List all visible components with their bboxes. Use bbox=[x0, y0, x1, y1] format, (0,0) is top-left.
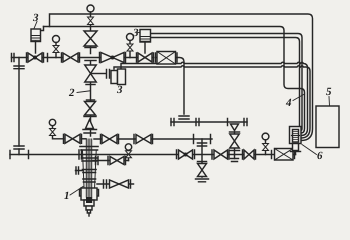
flange bar above swab valve bbox=[87, 99, 95, 101]
wire L6 signal line y=67 from box C with crossing hops bbox=[114, 66, 310, 138]
actuator box 3c (double) bbox=[111, 71, 118, 84]
gauge G2 bbox=[127, 34, 134, 41]
flange ticks left bbox=[10, 150, 82, 159]
leader 5 bbox=[328, 97, 331, 107]
lower rect bbox=[293, 144, 299, 151]
wire stem box B to valve V5 bbox=[144, 42, 146, 53]
valve bbox=[102, 135, 117, 144]
actuator box 3b bbox=[140, 30, 151, 43]
wire down from y139 line bbox=[201, 139, 203, 177]
flange bar above manifold1 bbox=[85, 47, 96, 49]
inner rect (coils) bbox=[293, 130, 299, 143]
leader 3a bbox=[34, 22, 37, 29]
valve V3 bbox=[101, 53, 124, 63]
flange bars tree top bbox=[83, 130, 97, 134]
wire stem box A to valve V1 bbox=[35, 42, 37, 54]
big valve above manifold1 bbox=[84, 31, 97, 46]
flange bars x19 upper bbox=[14, 66, 24, 69]
gauge G1 bbox=[53, 36, 60, 43]
svg-text:3: 3 bbox=[132, 27, 139, 39]
wire bbox=[171, 121, 247, 123]
leader 1 bbox=[70, 187, 83, 196]
wire bbox=[234, 132, 236, 155]
outer taper lines bbox=[83, 151, 97, 187]
svg-text:6: 6 bbox=[317, 150, 323, 162]
small valve on stem bbox=[88, 17, 94, 25]
master valve (vertical bowtie) bbox=[85, 65, 97, 82]
valve V1 bbox=[28, 53, 42, 62]
vent valve (vertical bowtie) bbox=[198, 164, 207, 177]
wire casing lines through base block bbox=[86, 188, 91, 197]
gauge G5 bbox=[262, 133, 269, 140]
left stub y=170.5 capped bbox=[76, 167, 84, 174]
flange bars bbox=[80, 147, 98, 151]
flange bar above vent valve bbox=[198, 161, 207, 163]
wire to tree bbox=[82, 138, 87, 140]
actuator box 3a bbox=[31, 29, 41, 42]
wire L4 signal line y=37.5 from box B bbox=[151, 38, 300, 127]
wire L1 top signal line y=14 bbox=[50, 14, 313, 141]
valve V8 bbox=[214, 150, 228, 159]
outer box bbox=[290, 127, 302, 144]
wire manifold 1 bbox=[12, 58, 185, 115]
flange pair left end bbox=[12, 54, 15, 62]
right stub y=184 with valve bbox=[97, 183, 134, 185]
wire stem bbox=[295, 152, 297, 155]
leader 4 bbox=[293, 94, 305, 101]
branch tee to manifold1 x=19 bbox=[18, 58, 20, 155]
wire manifold 2 bbox=[10, 154, 296, 156]
vent ground bars bbox=[196, 179, 209, 182]
gauge G3 bbox=[49, 119, 55, 125]
valve V2 bbox=[63, 53, 78, 62]
wire L2 stub into actuator box A bbox=[41, 27, 44, 31]
wire bbox=[94, 138, 212, 140]
flange pairs and ticks bbox=[171, 119, 247, 126]
flange tick bbox=[271, 151, 273, 159]
choke box with X bbox=[275, 149, 294, 161]
panel box bbox=[316, 106, 339, 148]
right stub y=160.5 with valve and gauge G4 bbox=[93, 160, 129, 162]
flange pair bbox=[107, 70, 110, 79]
funnel bbox=[231, 124, 239, 131]
svg-text:2: 2 bbox=[68, 87, 75, 99]
wire stem bbox=[90, 12, 92, 136]
valve (vertical bowtie) bbox=[230, 134, 240, 148]
flange bar bbox=[230, 131, 240, 133]
flange tick bbox=[47, 54, 49, 62]
cone adapter bbox=[86, 120, 94, 129]
svg-text:4: 4 bbox=[285, 97, 292, 109]
wire L5 signal line y=63.5 from box C with crossing hops bbox=[121, 62, 308, 135]
flange bar below swab bbox=[84, 116, 96, 118]
choke box with X bbox=[157, 52, 176, 65]
valve bbox=[136, 135, 151, 144]
valve V9 bbox=[244, 150, 254, 159]
wire side line to box C bbox=[92, 73, 106, 75]
leader 2 bbox=[77, 91, 90, 93]
svg-text:3: 3 bbox=[32, 12, 39, 24]
wire L3 signal line y=33.5 from box B bbox=[151, 34, 303, 131]
valve V5 under box B bbox=[138, 53, 152, 62]
wire center verticals bbox=[86, 139, 91, 188]
gauge G0 top bbox=[87, 5, 94, 12]
swab valve (vertical bowtie) bbox=[85, 102, 96, 116]
blind bars below manifold2 bbox=[231, 159, 239, 162]
flange bar bbox=[230, 150, 240, 152]
flange bars bbox=[198, 143, 207, 146]
flange bar below master valve bbox=[86, 84, 95, 86]
svg-text:3: 3 bbox=[116, 84, 123, 96]
leader 3b bbox=[138, 32, 141, 34]
valve bbox=[65, 134, 80, 143]
flange bar below manifold1 bbox=[85, 60, 96, 62]
valve V7 with dot bbox=[179, 150, 193, 159]
leader 6 bbox=[302, 145, 317, 155]
bottom blocks bbox=[80, 190, 99, 197]
svg-text:1: 1 bbox=[64, 190, 70, 202]
flange bars on vertical x=184 bbox=[179, 116, 189, 119]
wire L2 signal line y=26.5 bbox=[44, 27, 305, 134]
flange ticks bbox=[101, 135, 211, 144]
